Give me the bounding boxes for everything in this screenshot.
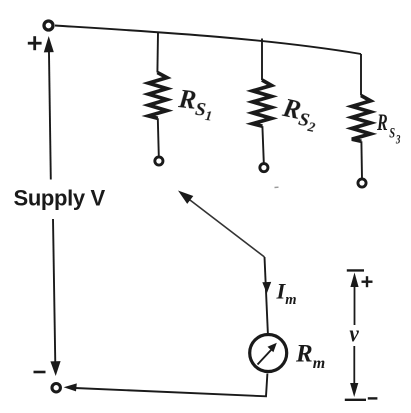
wire: top bus from supply + to RS3 [55,26,361,55]
label: + (v positive) [362,276,373,287]
resistor RS3 [352,54,371,178]
label: + (supply positive) [28,36,42,50]
wire: selector arm (arrow toward RS1 terminal) [178,191,265,258]
svg-text:v: v [349,320,359,347]
node: RS2 terminal [260,164,268,172]
node: RS1 terminal [155,157,163,165]
node: supply negative terminal [52,384,60,392]
speck (scan artifact) [275,186,279,188]
voltage bracket v: top bar [347,269,364,271]
node: RS3 terminal [358,179,366,187]
wire: bottom return (meter to supply -, left arrow) [64,374,268,397]
wire: left supply lead upper (with up arrow) [44,36,54,180]
label: - (supply negative) [34,371,46,374]
wire: left supply lead lower (with down arrow) [50,219,60,376]
label: - (v negative) [368,397,378,399]
svg-text:Supply V: Supply V [14,186,106,211]
resistor RS1 [149,33,167,157]
node: supply positive terminal [44,21,53,30]
wire: meter branch vertical (with down arrow Im) [262,257,271,334]
voltage bracket v: upper line with up arrow [350,273,358,326]
meter Rm (moving-coil meter) [250,335,287,372]
voltage bracket v: lower line with down arrow [350,346,358,397]
voltage bracket v: bottom bar [345,399,366,401]
resistor RS2 [253,39,272,163]
